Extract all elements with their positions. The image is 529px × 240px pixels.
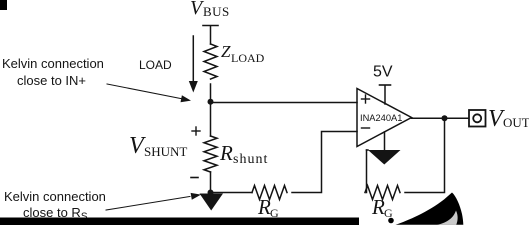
svg-text:shunt: shunt <box>233 152 268 167</box>
wire op-amp output <box>412 117 470 119</box>
wire VBUS to ZLOAD <box>210 26 212 44</box>
svg-text:BUS: BUS <box>203 4 230 19</box>
label Rshunt <box>219 141 268 167</box>
label LOAD <box>139 58 172 72</box>
wire node A to op-amp IN+ <box>211 102 358 104</box>
node VOUT label <box>488 106 529 132</box>
supply 5V terminal bar <box>380 84 391 86</box>
svg-text:Z: Z <box>221 42 231 61</box>
ground (power ground arrow below shunt) <box>200 194 224 211</box>
resistor RG1 <box>252 186 287 200</box>
svg-text:Kelvin connection: Kelvin connection <box>4 189 106 204</box>
op-amp U1 INA240A1 <box>357 89 412 147</box>
svg-text:R: R <box>257 195 271 219</box>
wire node B to RG1 <box>211 192 253 194</box>
svg-text:R: R <box>219 141 233 165</box>
resistor Rshunt <box>204 136 217 172</box>
ground (op-amp ground symbol) <box>368 150 401 165</box>
svg-text:5V: 5V <box>373 64 393 81</box>
node VBUS label <box>190 0 230 19</box>
wire Rshunt to node B <box>210 172 212 193</box>
svg-text:R: R <box>371 195 385 219</box>
wire op-amp V- pin to ground <box>384 132 386 150</box>
annotation Kelvin connection close to IN+ <box>2 56 104 88</box>
artifact black bar bottom left <box>0 218 359 226</box>
annotation arrow to node A <box>107 84 191 102</box>
artifact black corner top left <box>0 0 7 10</box>
resistor ZLOAD <box>204 44 217 79</box>
svg-text:LOAD: LOAD <box>231 51 265 65</box>
wire node A to Rshunt <box>210 103 212 137</box>
annotation Kelvin connection close to RS <box>4 189 106 223</box>
wire 5V to op-amp V+ pin <box>384 86 386 105</box>
svg-text:INA240A1: INA240A1 <box>360 113 402 123</box>
label RG1 <box>257 195 279 220</box>
supply 5V label <box>373 64 393 81</box>
node B junction dot (shunt bottom) <box>208 190 214 196</box>
label VSHUNT <box>129 133 187 159</box>
resistor RG2 <box>365 186 400 200</box>
artifact black swoosh bottom right <box>396 193 464 225</box>
artifact black dot <box>388 218 394 224</box>
wire RG2 to output node <box>405 118 445 192</box>
node A junction dot (shunt top) <box>208 99 214 105</box>
wire ground bar to RG2 <box>366 150 368 193</box>
annotation arrow to node B <box>106 193 201 210</box>
wire RG1 to op-amp IN- <box>292 132 357 193</box>
label ZLOAD <box>221 42 265 65</box>
op-amp part number label <box>360 113 402 123</box>
output terminal circle <box>473 114 481 122</box>
output terminal box <box>469 110 486 127</box>
artifact curl highlight <box>437 211 458 225</box>
svg-text:close to IN+: close to IN+ <box>17 73 86 88</box>
node C output junction dot <box>442 115 448 121</box>
wire ground bar left extension <box>367 149 369 151</box>
svg-text:Kelvin connection: Kelvin connection <box>2 56 104 71</box>
plus sign VSHUNT polarity <box>192 127 200 135</box>
svg-text:LOAD: LOAD <box>139 58 172 72</box>
label RG2 <box>371 195 393 220</box>
load current arrow <box>189 36 198 93</box>
op-amp minus input mark <box>362 127 370 129</box>
svg-text:SHUNT: SHUNT <box>144 144 187 159</box>
minus sign VSHUNT polarity <box>191 177 198 179</box>
VBUS terminal bar <box>203 25 218 27</box>
svg-text:OUT: OUT <box>503 115 529 130</box>
op-amp plus input mark <box>362 95 370 103</box>
wire ZLOAD to node A <box>210 84 212 103</box>
